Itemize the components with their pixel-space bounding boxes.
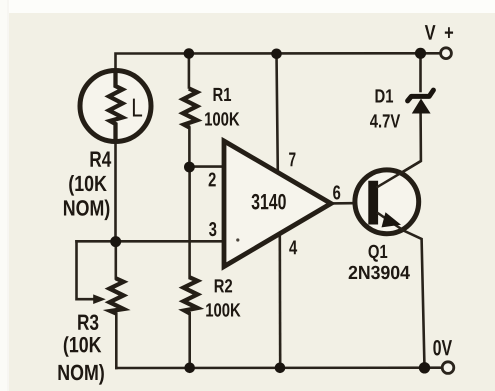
junction node A (110, 236, 121, 247)
label R3 10K (64, 336, 102, 357)
pin 6 (333, 185, 340, 199)
junction node on rail at D1 (415, 48, 426, 59)
transistor Q1 emitter line (377, 213, 404, 231)
transistor Q1 base bar (368, 181, 378, 225)
photocell R4 zigzag (109, 71, 123, 141)
wire node B down to R2 (188, 167, 191, 278)
label 0V (433, 340, 452, 356)
terminal 0V (442, 362, 454, 374)
junction node emitter bottom (419, 362, 430, 373)
label R3 (78, 314, 98, 330)
label R1 (214, 88, 232, 101)
wire emitter to bottom rail (377, 213, 425, 369)
wire top rail (116, 53, 446, 68)
potentiometer R3 wiper arrow (93, 294, 106, 304)
junction node on rail at R1 (184, 48, 195, 59)
junction node B (184, 162, 195, 173)
label V+ (425, 25, 453, 39)
pin 3 (209, 222, 216, 236)
label R2 100K (206, 303, 240, 316)
pin 4 (289, 241, 297, 255)
wire pin7 (277, 54, 278, 172)
wire R2 bottom (188, 313, 191, 368)
zener diode D1 triangle (412, 99, 431, 114)
wire zener to collector (377, 114, 421, 188)
label R4 NOM (64, 200, 109, 221)
speck inside op-amp (236, 238, 239, 241)
resistor R2 zigzag (184, 277, 198, 313)
wire zener top (419, 53, 422, 91)
label R4 (90, 152, 111, 167)
photocell R4 circle (80, 71, 151, 142)
wire R1 bottom to node B (188, 128, 191, 168)
label 2N3904 (349, 266, 410, 279)
wire pin3 horizontal (77, 240, 223, 243)
label R3 NOM (58, 364, 103, 385)
wire R1 top (188, 54, 191, 88)
label D1 (376, 89, 394, 102)
junction node pin4 bottom (275, 363, 286, 374)
transistor Q1 emitter arrow (382, 212, 402, 227)
junction node R2 bottom (184, 363, 195, 374)
wire R3 bottom (115, 314, 118, 369)
label R4 10K (69, 175, 107, 196)
wire pin2 (189, 165, 222, 168)
wire wiper loop (77, 241, 96, 299)
pin 2 (209, 172, 216, 186)
label Q1 (369, 245, 388, 262)
transistor Q1 collector line (377, 161, 421, 188)
wire bottom rail (116, 366, 447, 369)
label 4.7V (370, 114, 400, 127)
wire pin4 (278, 235, 281, 368)
pin 7 (289, 152, 295, 166)
wire photocell bottom to node A (114, 141, 117, 242)
terminal V+ (441, 48, 452, 59)
junction node on rail at pin7 (271, 49, 282, 60)
resistor R1 zigzag (183, 89, 197, 128)
op-amp U1 triangle (224, 141, 331, 267)
wire op-amp output to base (331, 202, 370, 205)
zener diode D1 cathode bar (408, 90, 434, 101)
potentiometer R3 zigzag (110, 278, 124, 313)
label R1 100K (205, 112, 239, 125)
wire R3 top (115, 242, 118, 279)
photocell label L (133, 99, 142, 117)
op-amp label 3140 (252, 194, 286, 210)
label R2 (215, 279, 232, 292)
transistor Q1 circle (355, 170, 419, 234)
